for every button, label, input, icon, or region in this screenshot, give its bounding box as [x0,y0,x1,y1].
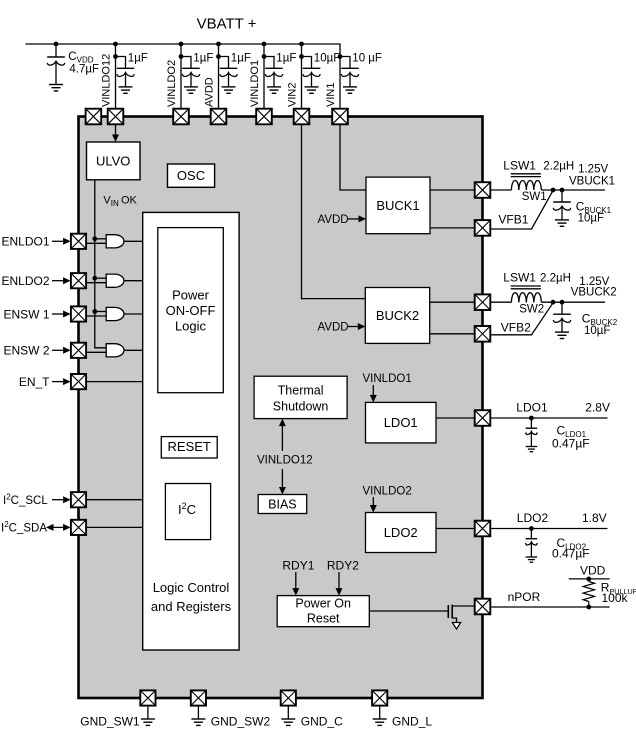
wire EN_T [86,381,142,383]
pin box ENSW 1 [71,306,86,321]
svg-text:GND_L: GND_L [392,714,432,728]
svg-text:0.47µF: 0.47µF [552,547,590,561]
label ENLDO1 [1,235,49,249]
svg-text:1µF: 1µF [276,53,296,65]
wire arrow VINLDO12 to Thermal [279,419,286,451]
ground for CLDO1 [526,447,538,452]
wire gate output ENLDO2 [124,280,143,282]
svg-text:VBUCK1: VBUCK1 [569,175,615,187]
svg-text:AVDD: AVDD [318,214,349,226]
wire arrow AVDD BUCK1 [348,215,366,222]
svg-text:RESET: RESET [168,439,211,454]
pin box VINLDO2 [173,109,189,125]
wire arrow into ENSW 1 [52,311,71,318]
node junction CLDO2 tap [529,526,534,531]
capacitor 1µF on VINLDO2 [182,68,200,86]
ground for CBUCK1 [555,220,569,226]
ground for VINLDO1 cap [267,87,281,93]
block ULVO [87,142,141,180]
wire gate output ENSW2 [124,349,143,351]
label GND_SW2 [211,714,271,728]
capacitor CVDD [47,44,65,84]
pin box top-left spare [86,109,102,125]
wire VBUCK2 out [541,301,605,303]
pin box AVDD [211,109,227,125]
node junction VFB1 tap [551,188,556,193]
pin box EN_T [71,374,86,389]
wire arrow into ENSW 2 [52,347,71,354]
pin box GND_SW2 [191,690,206,705]
svg-text:100k: 100k [602,591,629,605]
label VDD [580,564,606,578]
transistor Q1 nPOR open-drain [448,605,475,623]
svg-text:ENSW 2: ENSW 2 [3,344,49,358]
gate AND ENSW2 [106,344,124,357]
wire AVDD feed [216,42,221,109]
svg-text:BUCK1: BUCK1 [376,198,419,213]
wire arrow VINLDO1 to LDO1 [370,385,377,402]
svg-text:I2C_SCL: I2C_SCL [3,493,48,508]
svg-text:10 µF: 10 µF [352,53,382,65]
label LSW1 value (SW2) [503,271,571,285]
svg-text:Thermal: Thermal [278,384,324,398]
capacitor 1µF on AVDD [220,68,238,86]
wire bus to gate ENLDO1 [95,238,106,240]
svg-text:VFB1: VFB1 [498,213,528,227]
pin box ENLDO1 [71,234,86,249]
capacitor 1µF on VINLDO1 [265,68,283,86]
label VIN1 cap value [352,53,382,65]
wire SW2 to inductor [490,301,511,303]
wire arrow RDY2 [336,572,343,596]
wire BUCK1 to SW1 pin [430,189,475,191]
ground for VINLDO12 cap [119,87,133,93]
wire GND_C ground lead [287,706,289,719]
wire gate output ENSW1 [124,313,143,315]
pin box VFB1 [475,220,491,236]
pin box VIN1 [332,109,348,125]
capacitor 10µF on VIN2 [303,68,321,86]
label 2.8V [585,401,610,415]
svg-text:BIAS: BIAS [268,498,297,512]
pin box SW2 [475,294,491,310]
gate AND ENLDO1 [106,235,124,248]
gate AND ENLDO2 [106,274,124,287]
wire arrow VINLDO2 to LDO2 [370,497,377,513]
svg-text:CVDD: CVDD [68,51,93,65]
svg-text:VINLDO12: VINLDO12 [101,54,113,107]
svg-text:LDO2: LDO2 [384,525,418,540]
wire arrow into ENLDO1 [52,238,71,245]
label AVDD to BUCK2 [318,322,349,334]
ground for VINLDO2 cap [184,87,198,93]
svg-text:GND_C: GND_C [301,714,343,728]
gate AND ENSW1 [106,307,124,320]
label nPOR net [508,590,541,604]
pin box GND_L [372,690,387,705]
svg-text:Power On: Power On [295,597,351,611]
block OSC [168,164,215,187]
wire pin to gate ENSW2 [86,351,106,353]
wire arrow into ENLDO2 [52,277,71,284]
wire GND_SW1 ground lead [147,706,149,719]
label CLDO2 value [552,536,590,561]
ground GND_SW2 [191,719,205,725]
wire arrow I2C_SDA bidirectional [46,524,71,531]
svg-text:BUCK2: BUCK2 [376,308,419,323]
wire VFB1 feedback [490,191,553,229]
label VINLDO1 cap value [276,53,296,65]
label ENSW 2 [3,344,49,358]
pin box ENLDO2 [71,273,86,288]
svg-text:Logic Control: Logic Control [153,580,230,595]
svg-text:ULVO: ULVO [96,154,130,169]
block Logic Control and Registers [143,212,239,650]
svg-text:1µF: 1µF [128,53,148,65]
wire VIN2 to BUCK2 [302,124,366,298]
inductor LSW1 (SW2) [511,286,542,302]
main IC block body [79,117,483,699]
wire pin to gate ENSW1 [86,315,106,317]
node bus junction ENSW1 [92,309,97,314]
svg-text:RDY2: RDY2 [327,559,359,573]
capacitor CBUCK2 [553,302,571,331]
pin VINLDO12 [101,54,113,107]
wire LDO2 out [490,528,607,530]
wire pin to gate ENLDO2 [86,282,106,284]
svg-text:LSW1: LSW1 [503,158,536,172]
pin box SW1 [475,182,491,198]
block Thermal Shutdown [254,376,347,418]
pin box VINLDO1 [256,109,272,125]
wire VINLDO12 to ULVO arrow [112,124,119,142]
pin VINLDO2 [166,60,178,107]
pin box VIN2 [294,109,310,125]
svg-text:Power: Power [172,288,210,303]
wire VFB2 feedback [490,303,553,335]
wire VBATT rail [26,43,341,45]
wire VINLDO12 feed [113,42,118,109]
wire VINLDO1 cap branch [264,57,274,69]
svg-text:VINLDO1: VINLDO1 [363,373,412,385]
svg-text:and Registers: and Registers [151,599,232,614]
wire VIN1 cap branch [340,57,350,69]
capacitor 10 µF on VIN1 [341,68,359,86]
wire arrow into I2C_SCL [52,496,71,503]
ground for VIN1 cap [343,87,357,93]
wire VIN1 to BUCK1 [340,124,366,190]
svg-text:LDO1: LDO1 [516,401,548,415]
label ENSW 1 [3,307,49,321]
svg-text:EN_T: EN_T [19,375,50,389]
pin AVDD [204,77,216,107]
label ENLDO2 [1,274,49,288]
node bus junction ENLDO2 [92,276,97,281]
capacitor 1µF on VINLDO12 [117,68,135,86]
node VINLDO12 label [257,454,313,466]
svg-text:Shutdown: Shutdown [273,399,329,413]
svg-text:GND_SW2: GND_SW2 [211,714,271,728]
node junction VFB2 tap [551,300,556,305]
label CLDO1 value [552,424,590,451]
node junction CVDD [54,42,59,47]
svg-text:I2C_SDA: I2C_SDA [1,520,47,535]
wire I2C_SCL [86,499,142,501]
label CBUCK2 value [582,312,618,338]
wire bus to gate ENLDO2 [95,277,106,279]
wire LDO1 to pin [436,417,475,419]
wire arrow RDY1 [292,572,299,596]
svg-text:10µF: 10µF [584,325,610,337]
pin box VINLDO12 [108,109,124,125]
node bus junction ENLDO1 [92,236,97,241]
svg-text:ENLDO1: ENLDO1 [1,235,49,249]
wire LDO2 to pin [436,528,475,530]
svg-text:LSW1: LSW1 [503,271,536,285]
ground GND_C [281,719,295,725]
svg-text:VIN1: VIN1 [325,83,337,107]
wire VBUCK1 out [541,189,605,191]
svg-text:I2C: I2C [178,501,196,517]
label GND_C [301,714,343,728]
wire arrow VINLDO12 to BIAS [279,469,286,495]
wire gate output ENLDO1 [124,240,143,242]
wire VINLDO2 cap branch [181,57,191,69]
svg-text:VBUCK2: VBUCK2 [571,287,617,299]
wire VIN1 feed [338,44,343,109]
svg-text:SW1: SW1 [522,191,547,203]
block BUCK1 [366,177,430,234]
wire VIN2 feed [299,42,304,109]
svg-text:2.2µH: 2.2µH [540,273,571,285]
label CBUCK1 value [576,200,612,225]
svg-text:SW2: SW2 [519,303,544,315]
node VBATT label [197,16,257,33]
label AVDD cap value [231,53,251,65]
label CVDD value [68,51,99,76]
label RDY1 [282,559,314,573]
svg-text:GND_SW1: GND_SW1 [80,714,140,728]
wire VDD rail [569,578,610,580]
pin VIN1 [325,83,337,107]
label EN_T [19,375,50,389]
svg-text:1.8V: 1.8V [582,511,607,525]
ground for VIN2 cap [305,87,319,93]
svg-text:AVDD: AVDD [204,77,216,107]
pin VINLDO1 [249,60,261,107]
ground for AVDD cap [222,87,236,93]
svg-text:10µF: 10µF [314,53,340,65]
ground for Q1 source [452,623,460,630]
svg-text:ENLDO2: ENLDO2 [1,274,49,288]
pin box ENSW 2 [71,343,86,358]
label I2C_SCL [3,493,48,508]
block I2C [165,484,210,540]
svg-text:0.47µF: 0.47µF [552,437,590,451]
svg-text:VFB2: VFB2 [501,321,531,335]
svg-text:1µF: 1µF [193,53,213,65]
wire VINLDO2 feed [179,42,184,109]
label VBUCK1 [569,164,615,188]
block BIAS [258,495,307,514]
node junction nPOR pullup [586,605,591,610]
svg-text:LDO1: LDO1 [384,415,418,430]
ground for CLDO2 [526,557,538,562]
label VFB1 [498,213,528,227]
ground for CVDD [49,85,63,91]
label VINLDO12 cap value [128,53,148,65]
wire I2C_SDA [86,526,142,528]
wire bus to gate ENSW1 [95,311,106,313]
wire arrow into EN_T [52,378,71,385]
label SW1 net [522,191,547,203]
label VBUCK2 [571,276,617,299]
svg-text:VIN2: VIN2 [287,83,299,107]
wire GND_SW2 ground lead [197,706,199,719]
svg-text:10µF: 10µF [578,213,604,225]
svg-text:2.8V: 2.8V [585,401,610,415]
pin box LDO2 [475,521,491,537]
wire LDO1 out [490,417,607,419]
capacitor CLDO2 [526,529,538,557]
svg-text:Logic: Logic [175,319,207,334]
block Power On Reset [277,596,369,627]
pin box LDO1 [475,410,491,426]
svg-text:1µF: 1µF [231,53,251,65]
label RDY2 [327,559,359,573]
node junction CLDO1 tap [529,416,534,421]
svg-text:VINLDO2: VINLDO2 [166,60,178,107]
svg-text:4.7µF: 4.7µF [69,64,99,76]
wire BUCK1 to VFB1 pin [430,227,475,229]
ground GND_L [373,719,387,725]
svg-text:VINLDO1: VINLDO1 [249,60,261,107]
pin box I2C_SDA [71,520,86,535]
wire SW1 to inductor [490,189,511,191]
node junction CBUCK2 tap [560,300,565,305]
label AVDD to BUCK1 [318,214,349,226]
block Power ON-OFF Logic [158,228,224,393]
svg-text:VBATT +: VBATT + [197,16,257,33]
wire AVDD cap branch [219,57,229,69]
wire ULVO VIN-OK bus [95,180,106,348]
resistor RPULLUP [583,579,594,607]
svg-text:VINLDO12: VINLDO12 [257,454,313,466]
wire POR to transistor gate [369,610,448,612]
svg-text:VINLDO2: VINLDO2 [363,485,412,497]
block LDO1 [366,402,437,443]
svg-text:AVDD: AVDD [318,322,349,334]
svg-text:2.2µH: 2.2µH [543,160,574,172]
inductor LSW1 (SW1) [511,174,542,190]
capacitor CLDO1 [526,418,538,446]
svg-text:OSC: OSC [177,168,205,183]
label LSW1 value [503,158,574,172]
wire pin to gate ENLDO1 [86,242,106,244]
label GND_L [392,714,432,728]
label VINLDO2 cap value [193,53,213,65]
label VIN2 cap value [314,53,340,65]
label VFB2 [501,321,531,335]
svg-text:OK: OK [121,195,138,207]
label SW2 net [519,303,544,315]
label I2C_SDA [1,520,47,535]
svg-text:1.25V: 1.25V [578,164,608,176]
wire BUCK2 to VFB2 pin [430,333,475,335]
svg-text:LDO2: LDO2 [517,511,549,525]
block LDO2 [366,513,437,553]
capacitor CBUCK1 [553,190,571,219]
wire VINLDO12 cap branch [116,57,126,69]
label VIN OK [103,195,137,209]
pin box I2C_SCL [71,492,86,507]
pin box VFB2 [475,326,491,342]
svg-text:nPOR: nPOR [508,590,541,604]
svg-text:ON-OFF: ON-OFF [166,303,216,318]
wire BUCK2 to SW2 pin [430,301,475,303]
pin box GND_C [281,690,296,705]
svg-text:RDY1: RDY1 [282,559,314,573]
block BUCK2 [365,288,429,344]
ground for CBUCK2 [555,332,569,338]
wire nPOR out [490,606,609,608]
label RPULLUP value [601,581,636,605]
node VINLDO1 label [363,373,412,385]
ground GND_SW1 [141,719,155,725]
label LDO1 net [516,401,548,415]
node VDD tap [586,577,591,582]
pin VIN2 [287,83,299,107]
block RESET [161,437,217,458]
node junction CBUCK1 tap [560,188,565,193]
label 1.8V [582,511,607,525]
svg-text:ENSW 1: ENSW 1 [3,307,49,321]
label GND_SW1 [80,714,140,728]
wire VIN2 cap branch [302,57,312,69]
label LDO2 net [517,511,549,525]
svg-text:Reset: Reset [307,612,340,626]
pin box nPOR [475,599,491,615]
wire VINLDO1 feed [262,42,267,109]
pin box GND_SW1 [140,690,155,705]
wire arrow AVDD BUCK2 [348,323,365,330]
svg-text:VDD: VDD [580,564,606,578]
wire GND_L ground lead [379,706,381,719]
node VINLDO2 label [363,485,412,497]
